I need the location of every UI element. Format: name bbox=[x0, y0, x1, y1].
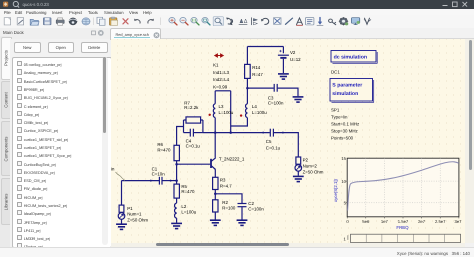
svg-text:K=0.99: K=0.99 bbox=[213, 84, 228, 89]
diagram S21 plot bbox=[333, 156, 462, 230]
app icons left bbox=[3, 2, 8, 7]
node emitter RC junction bbox=[214, 192, 217, 195]
wire V2 bottom lead bbox=[282, 58, 284, 72]
label C5 bbox=[266, 138, 281, 149]
magnifier 4 (teal fit) bbox=[202, 17, 210, 25]
wire V2 top lead bbox=[282, 46, 284, 53]
wire base bbox=[177, 163, 211, 165]
node L3/collector crossing bbox=[214, 131, 217, 134]
svg-text:L3: L3 bbox=[219, 104, 224, 109]
svg-text:C=100n: C=100n bbox=[248, 206, 264, 211]
capacitor C3 bbox=[274, 83, 277, 91]
pressed select/delete bbox=[213, 17, 223, 26]
separator bbox=[93, 18, 95, 25]
deactivate bbox=[274, 18, 282, 25]
label R6 bbox=[157, 142, 171, 152]
wire C3 right bbox=[278, 88, 298, 96]
ground below R2 bbox=[210, 220, 221, 225]
insert down arrow bbox=[317, 18, 323, 26]
svg-text:C=0.1u: C=0.1u bbox=[186, 143, 201, 148]
label R3 bbox=[220, 177, 232, 188]
svg-text:Stop=30 MHz: Stop=30 MHz bbox=[331, 128, 358, 133]
toolbar bbox=[0, 15, 474, 29]
terminal dots C1 bbox=[150, 179, 152, 181]
globe bbox=[82, 18, 90, 25]
label R2 bbox=[222, 200, 236, 211]
print bbox=[56, 18, 64, 25]
horizontal scrollbar bbox=[111, 243, 465, 248]
svg-text:1.5e7: 1.5e7 bbox=[398, 219, 409, 224]
node tap to output wire bbox=[229, 131, 232, 134]
inductor L3 bbox=[213, 103, 215, 117]
svg-text:R3: R3 bbox=[220, 177, 226, 182]
node label in bbox=[111, 166, 125, 180]
label C3 bbox=[268, 95, 284, 105]
svg-text:Z=50 Ohm: Z=50 Ohm bbox=[127, 217, 148, 222]
wire R5 to L2 bbox=[176, 198, 178, 203]
tab bar bbox=[110, 28, 474, 39]
S parameter simulation box SP1 bbox=[330, 78, 374, 140]
svg-text:R=47: R=47 bbox=[252, 72, 263, 77]
wire C1 left / input bbox=[122, 179, 160, 181]
capacitor C5 bbox=[270, 128, 273, 136]
label L2 bbox=[181, 203, 196, 214]
wire R7 leads bbox=[184, 119, 203, 121]
vertical scrollbar bbox=[465, 39, 474, 243]
title bar bbox=[0, 0, 474, 9]
label R7 bbox=[184, 100, 199, 110]
ground below V2 bbox=[278, 73, 289, 78]
svg-text:P2: P2 bbox=[303, 157, 309, 162]
wire top supply rail bbox=[247, 45, 283, 47]
monitor bbox=[352, 18, 360, 25]
open folder bbox=[30, 19, 39, 25]
svg-text:Z=50 Ohm: Z=50 Ohm bbox=[303, 169, 324, 174]
svg-text:15: 15 bbox=[341, 156, 346, 161]
wire tap column bbox=[230, 90, 232, 132]
resistor R2 bbox=[213, 199, 218, 211]
svg-text:dc simulation: dc simulation bbox=[334, 54, 367, 60]
svg-text:DC1: DC1 bbox=[331, 69, 340, 74]
ground below L2 bbox=[171, 223, 182, 228]
svg-text:L=100u: L=100u bbox=[252, 109, 267, 114]
wire P2 bottom lead bbox=[297, 171, 299, 176]
magnifier 1 (+red) bbox=[169, 17, 177, 25]
label C4 bbox=[186, 138, 201, 148]
svg-text:R2: R2 bbox=[222, 200, 228, 205]
svg-text:2.5e7: 2.5e7 bbox=[435, 219, 446, 224]
copy bbox=[97, 17, 105, 25]
wire C4 right lead bbox=[194, 131, 203, 133]
svg-text:V2: V2 bbox=[290, 50, 296, 55]
svg-text:SP1: SP1 bbox=[331, 107, 340, 112]
L3 polarity dot bbox=[209, 113, 211, 115]
svg-text:U=12: U=12 bbox=[290, 56, 301, 61]
svg-text:10: 10 bbox=[341, 178, 346, 183]
label L4 bbox=[252, 104, 267, 115]
wire P1 top lead bbox=[121, 180, 123, 205]
svg-text:2e7: 2e7 bbox=[418, 219, 426, 224]
svg-text:xyce(S[2,1]): xyce(S[2,1]) bbox=[333, 178, 338, 201]
svg-text:in: in bbox=[111, 166, 115, 171]
dc simulation box DC1 bbox=[331, 50, 377, 74]
label R14 bbox=[252, 65, 263, 77]
svg-text:Ind2=L4: Ind2=L4 bbox=[213, 77, 230, 82]
port P2 bbox=[295, 157, 302, 171]
svg-text:1: 1 bbox=[344, 236, 347, 241]
svg-text:L=100u: L=100u bbox=[219, 109, 234, 114]
wire feedback corner to R6 bbox=[177, 126, 184, 145]
key / probe bbox=[329, 19, 336, 25]
wire output row left bbox=[203, 131, 270, 133]
label K1 bbox=[213, 62, 230, 89]
svg-text:P1: P1 bbox=[127, 205, 133, 210]
svg-text:R14: R14 bbox=[252, 65, 261, 70]
transistor T_2N2222_1 bbox=[211, 157, 216, 170]
wire C4 left lead bbox=[184, 131, 190, 133]
svg-text:R=4.7: R=4.7 bbox=[220, 183, 232, 188]
node C1 junction bbox=[175, 179, 178, 182]
svg-text:L=100u: L=100u bbox=[181, 209, 196, 214]
svg-text:Start=0.1 MHz: Start=0.1 MHz bbox=[331, 121, 359, 126]
svg-text:Ind1=L3: Ind1=L3 bbox=[213, 69, 230, 74]
redo bbox=[148, 19, 154, 24]
svg-text:FREQ: FREQ bbox=[396, 225, 409, 230]
capacitor C2 bbox=[238, 203, 247, 206]
wire C1 right bbox=[162, 179, 176, 181]
label P1 bbox=[127, 205, 148, 222]
resistor R14 bbox=[245, 64, 251, 78]
status bar bbox=[0, 247, 474, 257]
svg-text:R=470: R=470 bbox=[157, 147, 171, 152]
inductor L2 bbox=[175, 203, 177, 218]
resistor R7 bbox=[186, 116, 201, 122]
svg-text:Num=1: Num=1 bbox=[127, 211, 142, 216]
svg-text:R=470: R=470 bbox=[181, 189, 195, 194]
label bbox=[297, 18, 303, 25]
K1 coupling marker red arrow bbox=[215, 54, 223, 57]
save floppy bbox=[43, 18, 51, 25]
mirror vertical bbox=[239, 19, 247, 24]
paste bbox=[110, 17, 118, 25]
wire L3 top lead bbox=[214, 90, 216, 103]
node at R14/C3 junction bbox=[246, 86, 249, 89]
wire base column bbox=[176, 160, 178, 183]
magnifier 3 (green 1:1) bbox=[191, 17, 199, 25]
menu bar bbox=[0, 9, 474, 15]
ground below P2 bbox=[293, 176, 304, 181]
label C2 bbox=[248, 201, 264, 211]
svg-text:Num=2: Num=2 bbox=[303, 163, 318, 168]
wire R3 to R2 bbox=[214, 189, 216, 199]
wire mode bbox=[286, 18, 293, 24]
wire R14 top lead bbox=[246, 46, 248, 64]
undo bbox=[134, 19, 140, 24]
inductor L4 bbox=[246, 103, 248, 117]
L4 polarity dot bbox=[240, 114, 242, 116]
ground below P1 bbox=[116, 224, 127, 229]
left vertical tab strip bbox=[0, 36, 10, 247]
wire R7/C4 left bar bbox=[183, 120, 185, 133]
svg-text:C=0.1u: C=0.1u bbox=[266, 145, 281, 150]
svg-text:L4: L4 bbox=[252, 104, 257, 109]
svg-text:C=100n: C=100n bbox=[268, 100, 284, 105]
svg-text:3e7: 3e7 bbox=[455, 219, 463, 224]
label P2 bbox=[303, 157, 324, 174]
rotate bbox=[226, 18, 232, 26]
window buttons bbox=[443, 2, 468, 7]
delete red X bbox=[123, 19, 128, 24]
label R5 bbox=[181, 183, 195, 193]
curve xyce(S[2,1]) bbox=[348, 161, 459, 210]
diagram second plot clipped bbox=[351, 234, 461, 242]
svg-text:C=10n: C=10n bbox=[152, 171, 166, 176]
new file bbox=[4, 18, 10, 25]
wire to C2 bbox=[215, 193, 242, 202]
resistor R3 bbox=[213, 177, 218, 189]
wire emitter lead bbox=[214, 169, 216, 176]
wire P1 bottom lead bbox=[121, 219, 123, 223]
label V2 bbox=[290, 50, 301, 62]
node base junction bbox=[175, 162, 178, 165]
project list bbox=[12, 57, 112, 248]
separator bbox=[160, 18, 162, 25]
svg-text:5e6: 5e6 bbox=[362, 219, 370, 224]
V glyph bbox=[364, 18, 371, 24]
resistor R6 bbox=[174, 145, 179, 160]
dark sphere icon bbox=[69, 18, 77, 25]
voltage source V2 bbox=[278, 49, 289, 58]
port P1 bbox=[118, 205, 125, 219]
dock header bbox=[0, 28, 110, 39]
svg-text:Points=500: Points=500 bbox=[331, 135, 354, 140]
equation box bbox=[306, 18, 314, 25]
ground below C2 bbox=[237, 220, 248, 225]
terminal dots C5 bbox=[262, 131, 264, 133]
capacitor C4 bbox=[190, 128, 193, 136]
svg-text:simulation: simulation bbox=[332, 91, 358, 97]
wire R7/C4 right bar bbox=[202, 120, 204, 133]
wire L4 bottom to tap column bbox=[231, 117, 248, 125]
wire R2 bottom lead bbox=[214, 212, 216, 220]
label C1 bbox=[152, 166, 166, 176]
svg-text:1e7: 1e7 bbox=[381, 219, 389, 224]
gear globe bbox=[339, 17, 348, 25]
resistor R5 bbox=[174, 184, 179, 198]
svg-text:T_2N2222_1: T_2N2222_1 bbox=[219, 156, 245, 161]
svg-text:S parameter: S parameter bbox=[332, 82, 362, 88]
rotate ccw bbox=[261, 18, 269, 24]
magnifier 2 (-red) bbox=[180, 17, 188, 25]
wire C3 left bbox=[247, 87, 273, 89]
canvas bbox=[111, 39, 465, 243]
wire R14 bottom to L4 top bbox=[246, 78, 248, 103]
wire transformer top link bbox=[215, 89, 231, 91]
wire L2 bottom lead bbox=[176, 218, 178, 223]
svg-text:R=100: R=100 bbox=[222, 205, 236, 210]
svg-text:R=2.2k: R=2.2k bbox=[184, 105, 199, 110]
wire C2 bottom lead bbox=[241, 207, 243, 219]
svg-text:C5: C5 bbox=[266, 138, 272, 143]
capacitor C1 bbox=[159, 176, 162, 184]
svg-text:Type=lin: Type=lin bbox=[331, 114, 348, 119]
wire output row right bbox=[274, 132, 299, 156]
svg-text:L2: L2 bbox=[181, 203, 186, 208]
svg-text:0: 0 bbox=[346, 219, 349, 224]
svg-text:K1: K1 bbox=[213, 62, 219, 67]
wire L3 bottom to collector bbox=[214, 117, 216, 157]
dock body bbox=[10, 39, 110, 248]
svg-text:5: 5 bbox=[344, 200, 347, 205]
open document bbox=[17, 18, 23, 25]
mirror horizontal bbox=[252, 18, 258, 25]
ground right of C3 bbox=[293, 96, 304, 101]
label L3 bbox=[219, 104, 234, 115]
